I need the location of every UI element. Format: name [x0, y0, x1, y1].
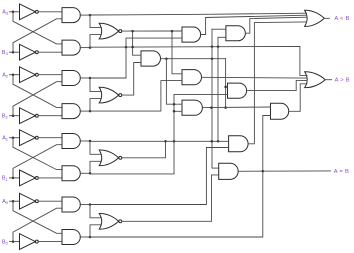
OR gate U2 A>B output OR — [305, 72, 325, 88]
node M6 out junction — [210, 106, 213, 109]
wire long riser M2top-M9top — [211, 29, 213, 168]
wire A1' to AND — [38, 137, 62, 139]
AND gate M1 less-than bit2 term — [182, 27, 201, 42]
wire M6 out to M7 top — [202, 106, 270, 109]
wire input B3 stub — [10, 51, 20, 53]
wire x3 to M4 top — [172, 31, 182, 74]
wire ab3 to A<B OR — [90, 13, 307, 15]
wire input A0 stub — [10, 200, 20, 202]
wire ba0 out stub — [80, 236, 90, 238]
wire x0 to M9 bottom — [122, 175, 219, 221]
node input B1 junction — [12, 177, 15, 180]
wire x2 to M3 bottom — [122, 63, 141, 96]
wire M3 out bus — [161, 58, 226, 60]
node x3 tap — [131, 30, 134, 32]
node ba3 cross d — [217, 45, 220, 48]
wire ab1 out stub — [80, 140, 90, 142]
wire A3 diagonal — [13, 12, 62, 44]
wire riser to M5 top — [225, 59, 227, 108]
wire ba3 to A>B OR — [90, 46, 307, 75]
AND gate A2B2′ — [62, 104, 80, 119]
AND gate A2′B2 — [62, 71, 80, 86]
node ab3 junction — [89, 14, 92, 17]
svg-text:A = B: A = B — [334, 169, 349, 175]
NOR gate x2 (XNOR bit 2) — [99, 87, 122, 103]
node ba3 junction — [89, 46, 92, 49]
wire ba0 to M7 bottom — [90, 116, 271, 238]
wire ab0 out stub — [80, 204, 90, 206]
wire M2 out to A<B OR — [245, 17, 306, 33]
svg-text:B0: B0 — [2, 239, 9, 245]
wire stub M6 bottom — [174, 110, 182, 112]
wire input B1 stub — [10, 177, 20, 179]
wire B0' to AND — [38, 241, 62, 243]
wire input B2 stub — [10, 115, 20, 117]
wire B0 diagonal — [13, 208, 62, 241]
node junction x1/ab1 — [164, 140, 167, 143]
node input A0 junction — [12, 200, 15, 203]
svg-text:A3: A3 — [2, 10, 9, 16]
wire B2 diagonal — [13, 82, 62, 116]
wire M7 out to A>B OR — [290, 84, 308, 112]
wire input B0 stub — [10, 241, 20, 243]
wire ab3 out stub — [80, 14, 90, 16]
node junction M6 bottom — [173, 110, 176, 113]
node input A1 junction — [12, 136, 15, 139]
wire stub M9 top — [212, 167, 218, 169]
inverter NOT A0 — [20, 193, 39, 209]
wire ba2 out stub — [80, 110, 90, 112]
node junction A=B cross — [262, 170, 265, 173]
node input A2 junction — [12, 73, 15, 76]
AND gate M3 cascade x3*x2 — [141, 51, 160, 66]
node M5 top junction — [224, 86, 227, 89]
wire M1 out to A<B OR — [202, 15, 307, 34]
NOR gate x3 (XNOR bit 3) — [99, 23, 122, 39]
AND gate M4 greater-than bit2 term — [182, 70, 202, 85]
wire ba1 out stub — [80, 172, 90, 174]
wire input A2 stub — [10, 74, 20, 76]
inverter NOT B2 — [20, 108, 39, 124]
wire B3' to AND — [38, 51, 62, 53]
wire input A3 stub — [10, 11, 20, 13]
AND gate A0′B0 — [62, 197, 80, 212]
AND gate M7 greater-than bit0 term — [271, 103, 289, 119]
node ba3 cross b — [131, 46, 134, 49]
wire A2' to AND — [38, 74, 62, 76]
wire riser M2 bottom to ab1 — [217, 37, 219, 141]
AND gate M8 less-than bit0 term — [229, 136, 249, 152]
node x3 tap 2 — [171, 30, 174, 32]
svg-text:B3: B3 — [2, 50, 9, 56]
AND gate M5 greater-than bit1 term — [228, 83, 247, 98]
inverter NOT A1 — [20, 130, 39, 146]
node ab1 junction — [89, 140, 92, 143]
wire input A1 stub — [10, 137, 20, 139]
wire A=B output — [238, 170, 330, 172]
svg-text:A1: A1 — [2, 135, 9, 141]
node junction ab1 line — [217, 140, 220, 143]
wire ba2 to NOR — [90, 99, 101, 112]
inverter NOT B1 — [20, 170, 39, 186]
node ba2 junction — [89, 110, 92, 113]
wire ab2 out stub — [80, 77, 90, 79]
NOR gate x1 (XNOR bit 1) — [99, 150, 122, 166]
inverter NOT B0 — [20, 234, 39, 250]
AND gate A1B1′ — [62, 166, 80, 181]
AND gate M6 cascade term — [182, 100, 202, 115]
node ba1 riser cross 1 — [173, 103, 176, 106]
wire M8 out to A<B OR — [248, 22, 306, 144]
wire ba1 riser to M5 bottom — [90, 94, 228, 173]
node ab2 junction — [89, 77, 92, 80]
AND gate A3′B3 — [62, 8, 80, 23]
wire ab0 to NOR — [90, 205, 101, 218]
node junction M6 line — [224, 106, 227, 109]
node ba0 junction — [89, 236, 92, 239]
node junction ab1 cross — [173, 140, 176, 143]
OR gate U1 A<B output OR — [305, 10, 325, 26]
svg-text:A > B: A > B — [335, 77, 350, 83]
wire ba0 to NOR — [90, 225, 101, 237]
wire ab2 to M1 — [90, 38, 182, 78]
inverter NOT B3 — [20, 44, 39, 60]
NOR gate x0 (XNOR bit 0) — [99, 213, 122, 229]
wire x3 to M3 top — [133, 31, 141, 55]
wire B2' to AND — [38, 115, 62, 117]
AND gate M9 equality AND — [219, 163, 238, 179]
svg-text:A2: A2 — [2, 72, 9, 78]
wire ba3 to NOR — [90, 35, 101, 48]
svg-text:B2: B2 — [2, 113, 9, 119]
wire A2 diagonal — [13, 75, 62, 108]
wire M4 out to A>B OR — [202, 76, 307, 79]
wire M2 bottom stub — [218, 36, 226, 38]
AND gate M2 less-than bit1 term — [226, 26, 245, 41]
wire M2 top stub — [212, 28, 226, 30]
svg-text:A0: A0 — [2, 199, 9, 205]
wire x3 bus — [122, 30, 182, 32]
node M3 bus cross — [211, 57, 214, 60]
inverter NOT A2 — [20, 67, 39, 83]
wire ab1 to M8 top — [90, 140, 229, 142]
wire A3' to AND — [38, 11, 62, 13]
wire A<B output stub — [324, 17, 329, 19]
wire ba3 out stub — [80, 47, 90, 49]
AND gate A3B3′ — [62, 40, 80, 55]
wire ab2 to NOR — [90, 78, 101, 92]
node ba1 junction — [89, 172, 92, 175]
wire ab3 to NOR — [90, 15, 101, 28]
node input B3 junction — [12, 51, 15, 54]
wire M3 out to M6 top — [166, 59, 182, 104]
node input B2 junction — [12, 114, 15, 117]
AND gate A0B0′ — [62, 230, 80, 245]
wire x1 out to ab1 line — [122, 141, 166, 158]
node junction riser/ab1 — [211, 140, 214, 143]
wire A0' to AND — [38, 200, 62, 202]
wire stub M5 top — [226, 86, 228, 88]
wire A0 diagonal — [13, 201, 62, 233]
wire B1' to AND — [38, 177, 62, 179]
wire B3 diagonal — [13, 19, 62, 52]
svg-text:A < B: A < B — [334, 16, 349, 22]
node ba3 cross c — [211, 45, 214, 48]
node input B0 junction — [12, 240, 15, 243]
wire ab0 to M8 bottom — [90, 148, 229, 205]
wire ab1 to NOR — [90, 141, 101, 154]
wire A1 diagonal — [13, 138, 62, 170]
node ba3 cross a — [125, 46, 128, 49]
AND gate A1′B1 — [62, 134, 80, 149]
wire A>B output stub — [325, 79, 332, 81]
inverter NOT A3 — [20, 4, 39, 20]
wire M5 out to A>B OR — [248, 80, 308, 90]
wire ba2 to M4 — [90, 81, 182, 112]
node M3 out junction — [165, 57, 168, 60]
wire B1 diagonal — [13, 145, 62, 178]
node input A3 junction — [12, 11, 15, 14]
svg-text:B1: B1 — [2, 176, 9, 182]
node ab0 junction — [89, 203, 92, 206]
wire ba1 to NOR — [90, 161, 101, 173]
